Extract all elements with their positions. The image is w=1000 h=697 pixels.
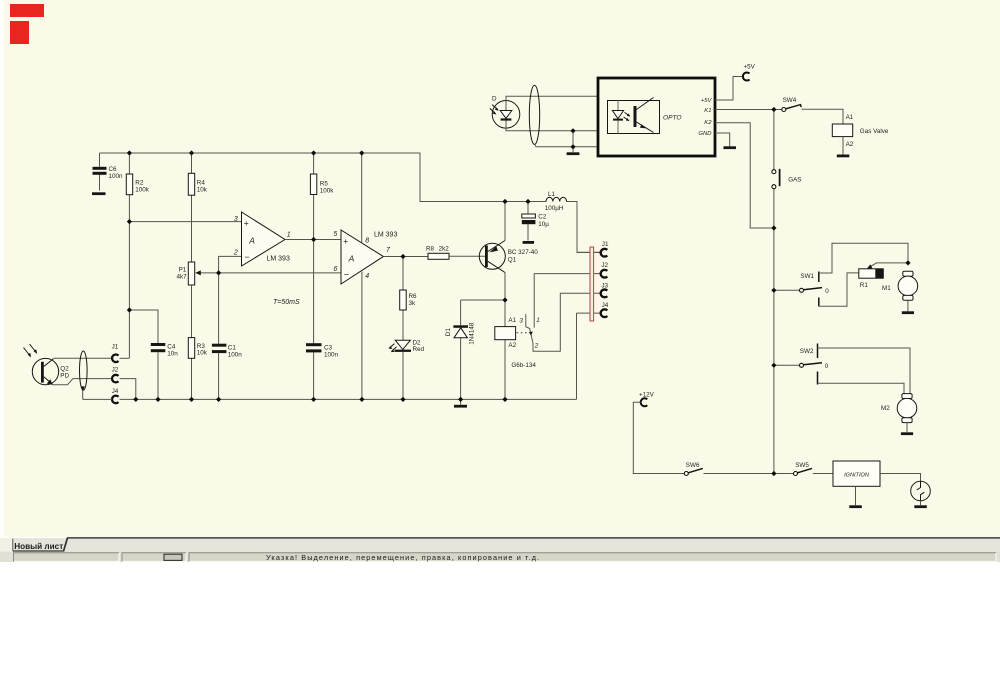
red artifact block B (top-left) — [10, 21, 29, 44]
wire: op-amp2 pin8 to rail — [361, 153, 363, 243]
svg-text:A2: A2 — [846, 141, 854, 148]
red artifact block A (top-left) — [10, 4, 44, 17]
svg-text:J3: J3 — [601, 282, 608, 289]
svg-text:R1: R1 — [860, 282, 869, 289]
svg-text:A: A — [248, 236, 255, 246]
node: gnd/C1 — [216, 397, 221, 402]
node: rail/R5 — [311, 150, 316, 155]
svg-text:J4: J4 — [112, 388, 119, 395]
svg-text:+5V: +5V — [701, 98, 713, 104]
svg-text:P1: P1 — [179, 266, 187, 273]
svg-text:LM 393: LM 393 — [374, 232, 397, 239]
wire: Q1 emitter up to rail — [504, 202, 506, 241]
svg-text:R8: R8 — [426, 246, 435, 253]
wire: Q2 emitter to J2 — [53, 379, 113, 385]
node: bus/SW5 — [771, 471, 776, 476]
svg-text:A1: A1 — [508, 317, 516, 324]
screen drain arrow to ground rail — [81, 386, 85, 399]
svg-text:3k: 3k — [409, 300, 417, 307]
svg-text:2k2: 2k2 — [439, 246, 450, 253]
white area below UI — [0, 562, 1000, 697]
svg-text:GAS: GAS — [788, 176, 801, 183]
node: rail/R4 — [189, 150, 194, 155]
status panel 1 — [14, 553, 120, 562]
wire: op-amp2 pin4 to ground rail — [361, 272, 363, 400]
wire: Q2 collector to J1 — [54, 357, 113, 359]
wire: screen to OPTO — [535, 144, 598, 147]
node: gnd/D1 — [458, 397, 463, 402]
schematic sheet background — [0, 0, 1000, 537]
wire: OPTO +5V pin to supply — [715, 77, 743, 101]
svg-text:Q1: Q1 — [508, 256, 517, 263]
wire: branch to op-amp1 -input — [219, 256, 242, 273]
svg-text:4k7: 4k7 — [176, 274, 187, 281]
phototransistor Q2 (PD) — [24, 344, 70, 385]
connector J3 (right) — [601, 282, 609, 297]
node: rail/pin8 — [359, 150, 364, 155]
svg-text:0: 0 — [825, 363, 829, 370]
push-button GAS — [772, 110, 802, 229]
node: rail/Q1e — [502, 199, 507, 204]
svg-text:1: 1 — [287, 231, 291, 238]
svg-text:T=50mS: T=50mS — [273, 299, 300, 306]
resistor R4 — [188, 153, 208, 262]
wire: screen junction to ground — [567, 131, 580, 155]
op-amp U1B (LM 393) — [341, 230, 397, 284]
svg-text:−: − — [244, 252, 249, 262]
node: +in — [127, 219, 132, 224]
inductor L1 — [545, 191, 567, 212]
node: screen top — [570, 128, 575, 133]
switch SW1 — [774, 243, 908, 306]
switch SW6 — [684, 462, 793, 475]
wire: Q1 collector down to relay node — [504, 273, 506, 301]
svg-text:C2: C2 — [538, 214, 547, 221]
svg-text:5: 5 — [333, 231, 337, 238]
svg-text:100µH: 100µH — [545, 205, 564, 212]
connector J2 (right) — [601, 262, 609, 278]
node: screen gnd — [570, 144, 575, 149]
resistor R6 — [400, 257, 417, 341]
svg-text:SW5: SW5 — [795, 462, 809, 469]
status panel 2 — [122, 553, 186, 562]
svg-text:J1: J1 — [112, 344, 119, 351]
ground at OPTO GND pin — [715, 133, 736, 149]
junction dots (nodes) — [127, 107, 911, 476]
svg-text:J2: J2 — [112, 367, 119, 374]
wire: J1 to R2 line — [120, 357, 130, 359]
photodiode D — [490, 96, 520, 129]
capacitor C1 — [212, 273, 242, 400]
rheostat R1 — [859, 263, 908, 289]
svg-text:BC 327-40: BC 327-40 — [508, 249, 539, 256]
op-amp U1A (LM 393) — [233, 212, 291, 266]
svg-text:8: 8 — [365, 237, 369, 244]
node: K2/bus — [771, 225, 776, 230]
svg-text:4: 4 — [365, 273, 369, 280]
svg-text:K1: K1 — [704, 108, 711, 114]
svg-text:100n: 100n — [228, 352, 243, 359]
node: bus/SW2 — [771, 363, 776, 368]
relay coil G6b-134 — [495, 300, 537, 399]
status panel 3 with hint text — [189, 553, 996, 562]
wire: photodiode cathode to OPTO — [506, 128, 598, 131]
svg-text:IGNITION: IGNITION — [844, 472, 870, 478]
svg-text:+12V: +12V — [639, 392, 655, 399]
sheet tab strip — [0, 538, 1000, 552]
connector J2 (left) — [112, 367, 119, 383]
switch SW5 — [794, 462, 834, 475]
node: C4 branch — [127, 307, 132, 312]
svg-text:A2: A2 — [508, 342, 516, 349]
svg-text:GND: GND — [698, 131, 712, 137]
connector bar (red) J1-J4 right — [590, 247, 594, 321]
svg-text:10k: 10k — [197, 186, 208, 193]
svg-text:OPTO: OPTO — [663, 114, 682, 121]
+12V supply symbol — [633, 392, 684, 474]
svg-text:C3: C3 — [324, 344, 333, 351]
spark plug — [880, 474, 930, 509]
connector J1 (left) — [112, 344, 119, 363]
svg-text:100n: 100n — [324, 352, 339, 359]
svg-text:2: 2 — [233, 250, 238, 257]
svg-text:LM 393: LM 393 — [267, 255, 290, 262]
wire: J4 line down to ground rail — [577, 313, 602, 399]
transistor Q1 (BC 327-40) — [479, 241, 538, 273]
svg-text:J1: J1 — [602, 241, 609, 248]
svg-text:10k: 10k — [197, 350, 208, 357]
cable screen ellipse (left) — [80, 351, 88, 390]
capacitor C4 — [129, 310, 178, 399]
module OPTO box — [598, 78, 715, 156]
svg-text:1N4148: 1N4148 — [468, 322, 475, 345]
node: gnd/C3 — [311, 397, 316, 402]
wire: op-amp1 output to op-amp2 +input — [285, 239, 341, 241]
svg-text:K2: K2 — [704, 120, 712, 126]
node: rail/C2 — [525, 199, 530, 204]
svg-text:J4: J4 — [602, 302, 609, 309]
svg-text:G6b-134: G6b-134 — [511, 362, 536, 369]
wire: op-amp2 output node — [383, 256, 428, 258]
resistor R2 — [126, 153, 150, 222]
capacitor C2 (10u) — [522, 202, 550, 244]
wire: J1 line — [577, 251, 601, 253]
diode D1 (1N4148) — [445, 300, 505, 399]
resistor R8 — [426, 246, 485, 260]
connector J4 (right) — [601, 302, 609, 317]
node: out2 — [400, 254, 405, 259]
svg-text:+: + — [244, 218, 249, 228]
wire: OPTO K1 pin to SW4 node — [715, 109, 782, 111]
svg-text:−: − — [344, 269, 349, 279]
wire: P1 wiper to op-amp2 -input — [219, 272, 341, 274]
svg-text:R6: R6 — [409, 293, 418, 300]
svg-text:D: D — [492, 96, 497, 103]
resistor R5 — [310, 153, 334, 343]
svg-text:Указка! Выделение, перемещение: Указка! Выделение, перемещение, правка, … — [266, 553, 540, 562]
wire: J2 line from relay pin1 — [534, 273, 601, 275]
wire: photodiode anode to OPTO — [506, 96, 598, 100]
svg-text:1: 1 — [536, 317, 540, 324]
node: gnd/R3 — [189, 397, 194, 402]
capacitor C3 — [306, 343, 339, 399]
node: D1/Q1c — [502, 297, 507, 302]
switch SW2 — [774, 344, 910, 394]
LED D2 (Red) — [389, 339, 425, 399]
motor M2 — [881, 394, 917, 435]
node: gnd/D2 — [400, 397, 405, 402]
wire: OPTO K2 pin down to bus — [715, 123, 774, 228]
wire: node to op-amp1 +input — [129, 221, 241, 223]
svg-text:Red: Red — [413, 346, 425, 353]
wire: R2 line down to J1 — [128, 222, 130, 359]
wire: top supply rail — [100, 153, 602, 252]
svg-text:A1: A1 — [846, 114, 854, 121]
tab: Новый лист — [13, 538, 68, 551]
cable screen ellipse (top) — [529, 85, 539, 144]
wire: ground rail — [83, 398, 577, 400]
svg-text:Новый лист: Новый лист — [14, 542, 63, 551]
svg-text:10n: 10n — [167, 350, 178, 357]
node: wiper — [216, 270, 221, 275]
svg-text:3: 3 — [519, 317, 523, 324]
resistor R3 — [188, 285, 208, 399]
svg-text:J2: J2 — [601, 262, 608, 269]
node: gnd/pin4 — [359, 397, 364, 402]
svg-text:SW1: SW1 — [800, 273, 814, 280]
svg-text:C1: C1 — [228, 344, 237, 351]
capacitor C6 — [92, 153, 123, 195]
node: gnd/C4 — [155, 397, 160, 402]
wire: J2 to ground rail — [120, 379, 136, 400]
svg-text:100n: 100n — [109, 173, 124, 180]
node: bus/SW1 — [771, 288, 776, 293]
svg-text:L1: L1 — [548, 191, 556, 198]
svg-text:PD: PD — [60, 373, 69, 380]
svg-text:Gas Valve: Gas Valve — [860, 128, 889, 135]
actuator Gas Valve — [832, 114, 889, 158]
node: R1/M1 — [905, 260, 910, 265]
svg-text:+: + — [343, 236, 348, 246]
svg-text:R5: R5 — [320, 180, 329, 187]
svg-text:+5V: +5V — [744, 64, 756, 71]
svg-text:10µ: 10µ — [538, 221, 549, 228]
svg-text:SW6: SW6 — [686, 462, 700, 469]
trimmer P1 — [176, 262, 218, 285]
ground symbol at D1 — [454, 399, 467, 407]
svg-text:100k: 100k — [320, 188, 335, 195]
node: gnd/J2 — [133, 397, 138, 402]
svg-text:6: 6 — [333, 266, 337, 273]
+5V supply symbol — [743, 64, 756, 81]
svg-text:SW2: SW2 — [800, 348, 814, 355]
svg-text:3: 3 — [234, 216, 238, 223]
node: out1/R5 — [311, 237, 316, 242]
svg-text:100k: 100k — [135, 186, 150, 193]
wire: main bus down right side — [773, 228, 775, 474]
svg-text:SW4: SW4 — [783, 97, 797, 104]
svg-text:2: 2 — [534, 343, 539, 350]
svg-text:M1: M1 — [882, 285, 891, 292]
node: K1/SW4 — [771, 107, 776, 112]
svg-text:M2: M2 — [881, 405, 890, 412]
svg-text:A: A — [348, 254, 355, 264]
node: gnd/coil — [502, 397, 507, 402]
wire: SW4 to Gas Valve — [802, 109, 844, 124]
motor M1 — [882, 271, 918, 314]
module IGNITION — [833, 461, 880, 508]
relay contact (pins 3-1-2) — [526, 274, 601, 352]
connector J4 (left) — [112, 388, 119, 403]
svg-text:D1: D1 — [445, 328, 452, 337]
connector J1 (right) — [601, 241, 609, 257]
node: rail/R2 — [127, 150, 132, 155]
svg-text:0: 0 — [825, 288, 829, 295]
switch SW4 — [782, 97, 801, 111]
status bar background — [0, 552, 1000, 562]
